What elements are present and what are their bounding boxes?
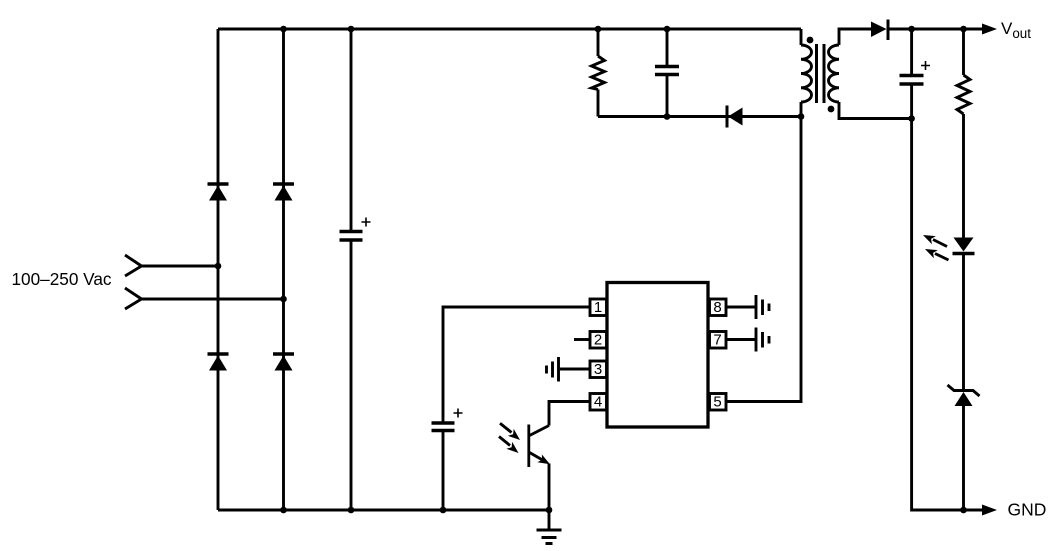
node input line 2 (142, 298, 284, 301)
input chevron 2 (125, 288, 142, 309)
wire primary bottom (800, 102, 803, 117)
node snubber bottom / C2 (664, 113, 671, 120)
wire pin 4 to optocoupler (549, 402, 590, 426)
transformer T1 secondary dot (828, 106, 835, 113)
node top rail / snubber C (664, 26, 671, 33)
wire pin 2 stub (574, 338, 590, 341)
wire primary top (800, 29, 803, 45)
diode D6 output rectifier (871, 20, 888, 41)
capacitor C4 bypass (432, 409, 463, 511)
node vout / C3 (908, 26, 915, 33)
wire left bridge leg 2 (282, 29, 285, 510)
LED optocoupler diode (953, 238, 975, 391)
capacitor C3 output (900, 29, 931, 119)
node bottom rail b (280, 507, 287, 514)
diode D5 snubber (727, 106, 743, 128)
node input 2 (280, 296, 287, 303)
wire secondary bottom (839, 102, 912, 119)
IC U1 pin 2 (590, 332, 607, 349)
GND arrow (982, 505, 997, 516)
transformer T1 (801, 29, 912, 119)
node vout / R2 (960, 26, 967, 33)
wire secondary top (839, 29, 871, 45)
IC U1 pin 4 (590, 394, 607, 411)
node bottom rail e (546, 507, 553, 514)
LED emission arrow 1 (923, 235, 947, 247)
opto light arrow 1 (500, 423, 520, 440)
LED emission arrow 2 (925, 249, 949, 260)
svg-text:100–250 Vac: 100–250 Vac (12, 269, 112, 289)
wire top rail (218, 28, 801, 31)
svg-text:2: 2 (594, 332, 602, 349)
ground pin3 (sideways) (547, 357, 559, 382)
resistor R2 feedback (957, 29, 970, 238)
zener diode Z1 (948, 385, 980, 510)
svg-text:1: 1 (594, 299, 602, 316)
capacitor C1 bulk (340, 29, 371, 510)
node snubber bottom / primary (798, 113, 805, 120)
resistor R1 snubber (592, 29, 605, 117)
node top rail / snubber R (595, 26, 602, 33)
input chevron 1 (125, 255, 142, 276)
transformer T1 primary dot (807, 37, 814, 44)
bridge diode D3 (208, 354, 229, 371)
node gnd rail (960, 507, 967, 514)
IC U1 pin 1 (590, 299, 607, 316)
IC U1 pin 5 (710, 394, 727, 411)
wire bottom ground rail (218, 509, 549, 512)
node bottom rail c (348, 507, 355, 514)
node bottom rail d (440, 507, 447, 514)
svg-text:Vout: Vout (1001, 19, 1031, 41)
wire pin 8 to ground (726, 306, 756, 309)
IC U1 pin 7 (710, 332, 727, 349)
bridge diode D4 (273, 354, 294, 371)
IC U1 pin 3 (590, 361, 607, 378)
node top rail / bulk cap (348, 26, 355, 33)
node secondary return (908, 115, 915, 122)
IC U1 pin 8 (710, 299, 727, 316)
bridge diode D2 (273, 184, 294, 201)
ground primary (537, 510, 562, 544)
wire left bridge leg 1 (217, 29, 220, 510)
ground pin7 (sideways) (756, 328, 769, 352)
wire pin 3 to ground (560, 368, 590, 371)
optocoupler phototransistor Q1 (529, 425, 550, 511)
svg-text:GND: GND (1008, 500, 1047, 520)
transformer T1 secondary winding (829, 45, 840, 102)
bridge diode D1 (208, 184, 229, 201)
svg-text:7: 7 (713, 332, 721, 349)
wire output rail (888, 28, 985, 31)
wire pin5 to transformer (726, 117, 801, 402)
svg-text:3: 3 (594, 361, 602, 378)
node top rail / bridge leg 2 (280, 26, 287, 33)
svg-text:5: 5 (713, 394, 721, 411)
svg-text:8: 8 (713, 299, 721, 316)
Vout arrow (982, 24, 997, 35)
IC U1 body (607, 283, 708, 428)
transformer T1 core (815, 44, 818, 103)
wire gnd arrow stub (964, 509, 984, 512)
transformer T1 primary winding (801, 45, 812, 102)
wire pin 7 to ground (726, 338, 756, 341)
node input line 1 (142, 265, 219, 268)
svg-text:4: 4 (594, 394, 602, 411)
ground pin8 (sideways) (756, 295, 769, 319)
wire snubber bottom (598, 115, 801, 118)
opto light arrow 2 (499, 437, 519, 454)
wire secondary return (912, 119, 964, 511)
node input 1 (215, 263, 222, 270)
wire pin 1 to C4 (443, 307, 590, 422)
capacitor C2 snubber (655, 29, 679, 117)
